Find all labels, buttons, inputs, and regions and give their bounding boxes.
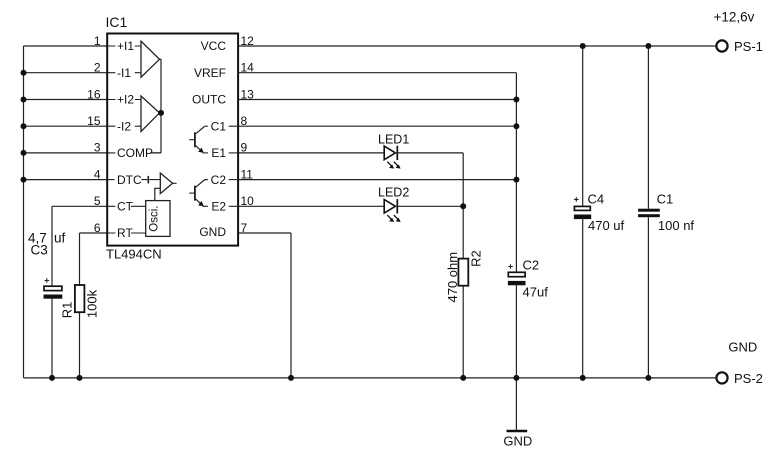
svg-text:16: 16: [87, 87, 101, 101]
svg-text:470 uf: 470 uf: [588, 218, 625, 233]
ground symbol bar: [507, 430, 528, 432]
svg-text:+I2: +I2: [117, 93, 134, 107]
junction dot ground rail pin7: [288, 375, 294, 381]
pin stub -I1: [108, 72, 141, 74]
pin stub C1: [229, 125, 237, 127]
wire pin4 to left bus: [24, 179, 108, 181]
capacitor C3 top plate: [44, 286, 62, 290]
capacitor C1 bottom plate: [638, 214, 660, 217]
wire C4 column lower: [582, 219, 584, 378]
svg-text:C2: C2: [523, 257, 540, 272]
svg-text:9: 9: [241, 141, 248, 155]
svg-text:15: 15: [87, 114, 101, 128]
svg-text:R2: R2: [469, 250, 484, 267]
junction dot ground rail C1: [645, 375, 651, 381]
wire C4 column upper: [582, 46, 584, 206]
junction dot VCC C4: [580, 43, 586, 49]
wire amplifier outputs to COMP: [150, 59, 161, 153]
IC1 body outline: [107, 34, 238, 246]
pin stub E2: [229, 205, 237, 207]
svg-text:100k: 100k: [85, 289, 100, 318]
junction dot bus pin2: [21, 70, 27, 76]
LED2 diode triangle: [384, 200, 395, 214]
svg-text:TL494CN: TL494CN: [106, 247, 162, 262]
wire LED1 to R2 column: [397, 152, 463, 154]
LED2 light arrow a: [387, 215, 391, 219]
capacitor C4 top plate: [574, 206, 590, 210]
transistor Q2 emitter: [196, 199, 201, 204]
wire pin3 to left bus: [24, 152, 108, 154]
LED1 light arrow b: [394, 162, 398, 166]
transistor Q2 emitter stub: [203, 205, 209, 207]
svg-text:13: 13: [241, 87, 255, 101]
svg-text:COMP: COMP: [117, 146, 153, 160]
capacitor C3 bottom plate: [44, 295, 63, 299]
capacitor C2 plus sign: [508, 264, 513, 269]
pin stub -I2: [108, 125, 141, 127]
wire R1 column lower: [79, 312, 81, 378]
svg-text:LED2: LED2: [378, 186, 409, 200]
pin stub RT: [108, 232, 146, 234]
transistor Q1 emitter: [196, 146, 201, 151]
wire E1 pin9 to LED1: [238, 152, 384, 154]
DTC input tick symbol: [141, 176, 160, 184]
wire R2 column upper: [462, 153, 464, 259]
transistor Q2 base lead: [189, 192, 194, 194]
LED1 light arrow a: [387, 162, 391, 166]
wire oscillator to DTC triangle: [155, 188, 161, 200]
capacitor C3 plus sign: [45, 278, 50, 283]
wire C1 pin8 horizontal: [238, 125, 516, 127]
wire pin2 to left bus: [24, 72, 108, 74]
wire R2 column lower: [462, 286, 464, 378]
svg-text:DTC: DTC: [117, 173, 142, 187]
svg-text:12: 12: [241, 34, 255, 48]
svg-text:3: 3: [94, 141, 101, 155]
wire pin16 to left bus: [24, 99, 108, 101]
LED1 diode triangle: [384, 146, 395, 160]
pin stub COMP: [108, 152, 161, 154]
wire OUTC pin13 horizontal: [238, 99, 516, 101]
svg-text:-I1: -I1: [117, 66, 131, 80]
svg-text:11: 11: [241, 167, 254, 181]
junction dot pin8 column: [513, 123, 519, 129]
svg-text:+I1: +I1: [117, 39, 134, 53]
junction dot ground rail C4: [580, 375, 586, 381]
wire VCC pin12 to PS-1: [238, 45, 716, 47]
svg-text:1: 1: [94, 34, 101, 48]
transistor Q2 base bar: [194, 186, 196, 201]
capacitor C4 plus sign: [574, 197, 579, 202]
error amplifier 2 triangle: [141, 96, 160, 132]
svg-text:E2: E2: [211, 200, 226, 214]
transistor Q2 collector: [196, 180, 208, 188]
svg-text:R1: R1: [60, 302, 75, 319]
wire LED2 to R2 column: [397, 205, 463, 207]
svg-text:100 nf: 100 nf: [658, 218, 695, 233]
junction dot ground rail R1: [77, 375, 83, 381]
wire C3 column upper: [51, 206, 53, 286]
LED2 cathode bar: [396, 199, 398, 213]
svg-text:-I2: -I2: [117, 119, 131, 133]
wire pin7 drop vertical: [290, 233, 292, 378]
wire C1 cap column upper: [647, 46, 649, 209]
svg-text:VCC: VCC: [201, 39, 227, 53]
resistor R2 body: [458, 259, 468, 286]
svg-text:14: 14: [241, 61, 255, 75]
terminal PS-2 circle: [716, 372, 727, 383]
svg-text:C2: C2: [211, 173, 227, 187]
svg-text:GND: GND: [503, 434, 532, 449]
junction dot VCC C1: [645, 43, 651, 49]
transistor Q2 emitter arrowhead: [198, 201, 204, 206]
svg-text:RT: RT: [117, 226, 133, 240]
terminal PS-1 circle: [716, 40, 727, 51]
oscillator box: [146, 201, 170, 237]
resistor R1 body: [75, 285, 85, 312]
pin stub +I1: [108, 45, 141, 47]
wire left ground bus vertical: [23, 46, 25, 378]
wire pin15 to left bus: [24, 125, 108, 127]
svg-text:8: 8: [241, 114, 248, 128]
svg-text:uf: uf: [54, 231, 66, 246]
capacitor C2 bottom plate: [508, 281, 526, 285]
svg-text:C3: C3: [31, 243, 48, 258]
junction dot OUTC column: [513, 97, 519, 103]
junction amplifier2 output: [158, 110, 164, 116]
DTC comparator triangle: [160, 173, 172, 194]
transistor Q1 collector: [196, 126, 208, 134]
pin stub CT: [108, 205, 146, 207]
svg-text:VREF: VREF: [194, 66, 226, 80]
junction dot ground rail C3: [49, 375, 55, 381]
junction dot pin11 column: [513, 177, 519, 183]
capacitor C4 bottom plate: [574, 215, 591, 220]
pin stub +I2: [108, 99, 141, 101]
wire C3 column lower: [51, 299, 53, 378]
junction dot ground rail C2: [513, 375, 519, 381]
capacitor C2 top plate: [508, 272, 525, 276]
wire pin6 RT to R1 column: [80, 232, 108, 234]
error amplifier 1 triangle: [141, 41, 160, 77]
wire C2 column lower: [515, 286, 517, 378]
wire E2 pin10 to LED2: [238, 205, 384, 207]
svg-text:470 ohm: 470 ohm: [445, 252, 460, 303]
junction dot LED2 R2 column: [460, 203, 466, 209]
wire VREF pin14 horizontal: [238, 72, 516, 74]
transistor Q1 base lead: [189, 139, 194, 141]
wire C2 column to ground symbol: [515, 378, 517, 430]
junction dot bus pin3: [21, 150, 27, 156]
DTC comparator output stub: [173, 182, 177, 184]
wire C1 cap column lower: [647, 217, 649, 378]
svg-text:GND: GND: [199, 225, 226, 239]
capacitor C1 top plate: [638, 209, 660, 212]
wire C2 column upper: [515, 73, 517, 273]
wire R1 column upper: [79, 233, 81, 285]
svg-text:+12,6v: +12,6v: [714, 10, 755, 25]
svg-text:IC1: IC1: [106, 14, 128, 30]
svg-text:C4: C4: [588, 192, 605, 207]
svg-text:2: 2: [94, 61, 101, 75]
pin stub C2: [229, 179, 237, 181]
junction dot bus pin15: [21, 123, 27, 129]
LED1 cathode bar: [396, 146, 398, 160]
svg-text:E1: E1: [211, 146, 226, 160]
transistor Q1 emitter arrowhead: [198, 148, 204, 153]
transistor Q1 base bar: [194, 132, 196, 147]
svg-text:47uf: 47uf: [523, 285, 549, 300]
svg-text:C1: C1: [211, 119, 227, 133]
svg-text:C1: C1: [657, 192, 674, 207]
junction dot bus pin4: [21, 177, 27, 183]
junction dot bus pin16: [21, 97, 27, 103]
svg-text:PS-2: PS-2: [734, 371, 763, 386]
wire pin5 CT to C3 column: [52, 205, 107, 207]
svg-text:6: 6: [94, 221, 101, 235]
junction dot ground rail R2: [460, 375, 466, 381]
svg-text:7: 7: [241, 221, 248, 235]
pin stub DTC input: [108, 179, 115, 181]
svg-text:10: 10: [241, 194, 255, 208]
svg-text:LED1: LED1: [378, 132, 409, 146]
svg-text:Osci.: Osci.: [149, 205, 161, 231]
wire pin1 to left bus: [24, 45, 108, 47]
svg-text:4: 4: [94, 167, 101, 181]
transistor Q1 emitter stub: [203, 152, 209, 154]
svg-text:5: 5: [94, 194, 101, 208]
wire bottom ground rail to PS-2: [24, 377, 717, 379]
LED2 light arrow b: [394, 215, 398, 219]
svg-text:PS-1: PS-1: [734, 39, 763, 54]
svg-text:OUTC: OUTC: [192, 93, 226, 107]
wire C2 pin11 horizontal: [238, 179, 516, 181]
svg-text:GND: GND: [728, 340, 757, 355]
wire pin7 GND horizontal: [238, 232, 291, 234]
pin stub E1: [229, 152, 237, 154]
